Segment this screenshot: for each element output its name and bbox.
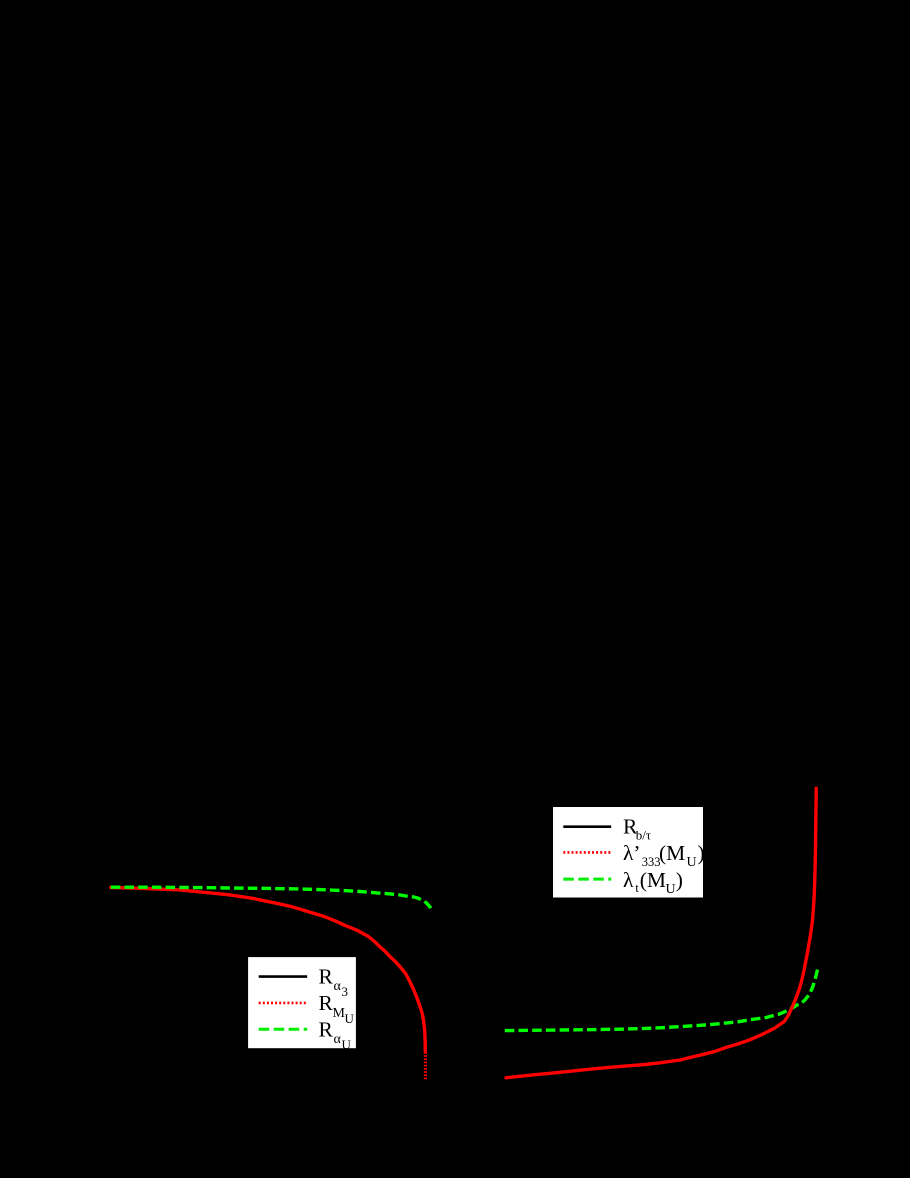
svg-text:α: α (334, 979, 342, 994)
svg-text:): ) (676, 868, 683, 892)
right plot: red curve lambda'333 (506, 788, 816, 1078)
left legend red dotted sample (259, 1002, 308, 1005)
svg-text:λ: λ (623, 868, 634, 892)
right plot: green dashed curve lambda_t (505, 969, 818, 1031)
left plot: red curve dotted vertical tail (424, 1052, 427, 1080)
svg-text:U: U (666, 882, 676, 897)
left legend box (248, 957, 357, 1049)
svg-text:R: R (319, 991, 334, 1015)
left legend black solid sample (259, 975, 308, 978)
svg-text:λ’: λ’ (623, 841, 641, 865)
right legend green dashed sample (563, 878, 611, 881)
right legend red dotted sample (563, 851, 611, 854)
svg-text:(M: (M (640, 868, 666, 892)
left plot: red curve R_MU (111, 888, 426, 1053)
svg-text:t: t (635, 880, 639, 895)
svg-text:U: U (345, 1011, 355, 1026)
svg-text:333: 333 (642, 855, 661, 869)
right legend box (552, 806, 704, 899)
svg-text:R: R (319, 965, 334, 989)
svg-text:): ) (698, 841, 705, 865)
svg-text:R: R (319, 1018, 334, 1042)
right legend black solid sample (563, 825, 611, 828)
svg-text:U: U (342, 1037, 352, 1052)
svg-text:α: α (334, 1032, 342, 1047)
svg-text:3: 3 (342, 984, 349, 999)
svg-text:U: U (687, 855, 697, 870)
left legend green dashed sample (259, 1028, 308, 1031)
svg-text:(M: (M (659, 841, 685, 865)
left plot: green dashed curve R_alphaU (111, 887, 431, 908)
